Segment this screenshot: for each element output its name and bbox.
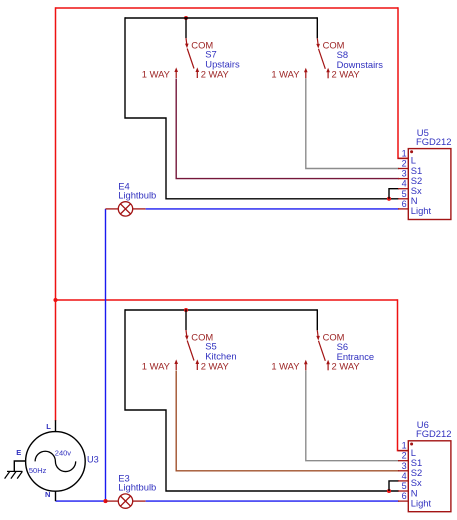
svg-text:1 WAY: 1 WAY [271, 69, 300, 80]
svg-text:Lightbulb: Lightbulb [118, 190, 156, 201]
svg-text:2 WAY: 2 WAY [332, 361, 361, 372]
svg-text:3: 3 [402, 169, 407, 179]
switch S6 COM terminal [316, 330, 319, 336]
switch S7 2 WAY terminal [196, 71, 198, 78]
wire Sx bridge (U5) [389, 189, 399, 199]
svg-text:240v: 240v [55, 449, 72, 458]
svg-text:2 WAY: 2 WAY [201, 360, 230, 371]
wire S8 COM drop [316, 17, 318, 38]
pin 1 marker (U6) [410, 443, 413, 446]
wire S6 1WAY to U6 S1 [306, 371, 399, 461]
wire N from U3 [56, 500, 106, 502]
svg-text:4: 4 [402, 471, 407, 481]
svg-text:U3: U3 [87, 455, 99, 465]
pin 6 stub (U6) [398, 500, 408, 502]
U3 E lead [14, 461, 26, 471]
pin 3 stub (U5) [398, 178, 408, 180]
ground [7, 470, 22, 472]
svg-text:3: 3 [402, 461, 407, 471]
switch S7 lever [187, 49, 194, 69]
wire S5 1WAY to U6 S2 [176, 371, 399, 471]
wire L to U5 pin 1 [398, 7, 409, 158]
svg-text:1 WAY: 1 WAY [142, 68, 171, 79]
switch S6 2 WAY terminal [327, 363, 329, 370]
pin 5 stub (U5) [398, 198, 408, 200]
wire L top [56, 7, 399, 9]
svg-text:1 WAY: 1 WAY [142, 360, 171, 371]
switch S8 1 WAY terminal [305, 71, 307, 78]
svg-text:4: 4 [402, 179, 407, 189]
junction dot N/E4/E3 [103, 499, 107, 503]
wire L left [55, 7, 57, 421]
pin 4 stub (U5) [398, 188, 408, 190]
pin 2 stub (U5) [398, 168, 408, 170]
svg-text:L: L [46, 422, 51, 431]
pin 3 stub (U6) [398, 470, 408, 472]
svg-text:1 WAY: 1 WAY [271, 361, 300, 372]
pin 1 stub (U6) [398, 450, 408, 452]
wire S7 COM drop [185, 17, 187, 38]
svg-text:2: 2 [402, 159, 407, 169]
junction dot L mid [53, 298, 57, 302]
svg-text:Lightbulb: Lightbulb [118, 482, 156, 493]
wire E4 return down [105, 209, 107, 501]
switch S6 lever [319, 341, 326, 361]
pin 1 marker (U5) [410, 150, 413, 153]
pin 5 stub (U6) [398, 490, 408, 492]
AC source U3 body [26, 432, 86, 492]
svg-text:N: N [45, 490, 50, 499]
svg-text:5: 5 [402, 481, 407, 491]
pin 6 stub (U5) [398, 208, 408, 210]
switch S8 COM terminal [316, 38, 319, 44]
pin 2 stub (U6) [398, 460, 408, 462]
svg-text:5: 5 [402, 189, 407, 199]
U3 L lead [55, 420, 57, 432]
svg-text:6: 6 [402, 199, 407, 209]
wire S8 1WAY to U5 S1 [306, 79, 399, 169]
svg-text:FGD212: FGD212 [416, 136, 451, 147]
wire S5 COM drop [185, 309, 187, 330]
svg-text:50Hz: 50Hz [29, 466, 47, 475]
svg-text:2 WAY: 2 WAY [332, 69, 361, 80]
wire N route section 1 [125, 17, 399, 199]
AC source sine wave [35, 451, 76, 471]
svg-text:Light: Light [411, 205, 432, 216]
wire S7 1WAY to U5 S2 [176, 79, 399, 179]
wire S6 COM drop [316, 309, 318, 330]
svg-text:1: 1 [402, 441, 407, 451]
switch S5 1 WAY terminal [175, 363, 177, 370]
svg-text:2 WAY: 2 WAY [201, 68, 230, 79]
switch S7 COM terminal [185, 38, 188, 44]
wire E3 to U6 Light [146, 500, 399, 502]
junction dot L/COM feed S7 [184, 16, 188, 20]
switch S8 lever [319, 49, 326, 69]
lightbulb E4 [118, 202, 132, 216]
wire COM feed mid (S5-S6) [125, 309, 317, 311]
svg-text:6: 6 [402, 491, 407, 501]
wire L to U6 pin 1 [398, 299, 409, 450]
wire Sx bridge (U6) [389, 481, 399, 491]
wire N route section 2 [125, 309, 399, 491]
lightbulb E3 [118, 494, 132, 508]
dimmer module U6 [408, 441, 451, 512]
svg-text:Light: Light [411, 497, 432, 508]
switch S5 lever [187, 341, 194, 361]
svg-text:1: 1 [402, 148, 407, 158]
switch S8 2 WAY terminal [327, 71, 329, 78]
junction dot N/Sx (U5) [387, 197, 391, 201]
switch S5 2 WAY terminal [196, 363, 198, 370]
switch S7 1 WAY terminal [175, 71, 177, 78]
dimmer module U5 [408, 149, 451, 220]
wire COM feed top (S7-S8) [125, 17, 317, 19]
svg-text:2: 2 [402, 451, 407, 461]
wire L mid [56, 299, 398, 301]
wire E4 to U5 Light [146, 208, 399, 210]
pin 4 stub (U6) [398, 480, 408, 482]
switch S6 1 WAY terminal [305, 363, 307, 370]
svg-text:FGD212: FGD212 [416, 428, 451, 439]
pin 1 stub (U5) [398, 157, 408, 159]
switch S5 COM terminal [185, 330, 188, 336]
svg-text:E: E [16, 448, 21, 457]
junction dot N/Sx (U6) [387, 489, 391, 493]
U3 N lead [55, 491, 57, 501]
junction dot L/COM feed S5 [184, 308, 188, 312]
